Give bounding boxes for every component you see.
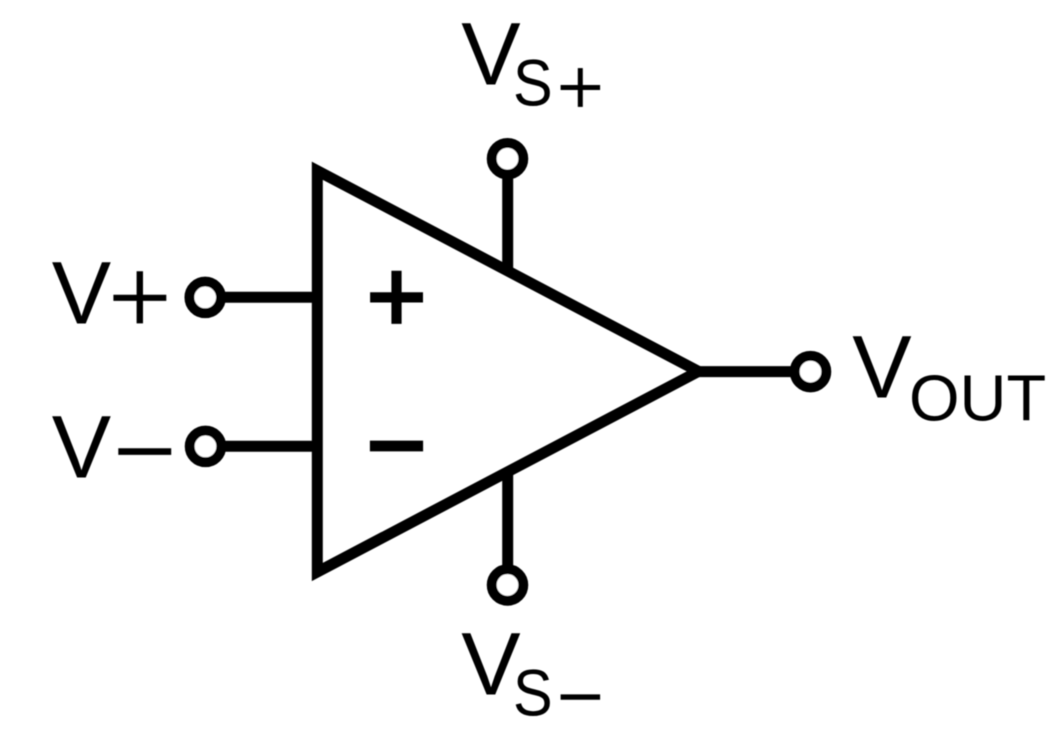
wire negative supply	[502, 470, 513, 585]
svg-text:S: S	[513, 657, 553, 731]
label VS+	[461, 3, 600, 120]
svg-text:V: V	[52, 397, 111, 497]
wire inverting input	[206, 441, 323, 452]
svg-text:OUT: OUT	[909, 361, 1046, 434]
wire output	[690, 366, 811, 377]
wire noninverting input	[205, 292, 322, 303]
svg-text:S: S	[513, 47, 553, 121]
terminal node V+	[189, 282, 221, 314]
op-amp U1 triangle	[317, 171, 698, 572]
svg-text:V: V	[52, 242, 111, 342]
svg-text:V: V	[461, 613, 520, 713]
terminal node VOUT	[795, 356, 827, 388]
svg-text:V: V	[461, 3, 520, 103]
label V+	[52, 242, 167, 342]
svg-text:V: V	[852, 317, 911, 417]
label V-	[52, 397, 172, 497]
minus symbol inverting input	[370, 441, 423, 452]
label VOUT	[852, 317, 1046, 435]
wire positive supply	[502, 159, 513, 273]
terminal node VS-	[492, 569, 524, 601]
terminal node V-	[190, 431, 222, 463]
label VS-	[461, 613, 600, 730]
plus symbol noninverting input	[370, 271, 423, 324]
terminal node VS+	[492, 143, 524, 175]
